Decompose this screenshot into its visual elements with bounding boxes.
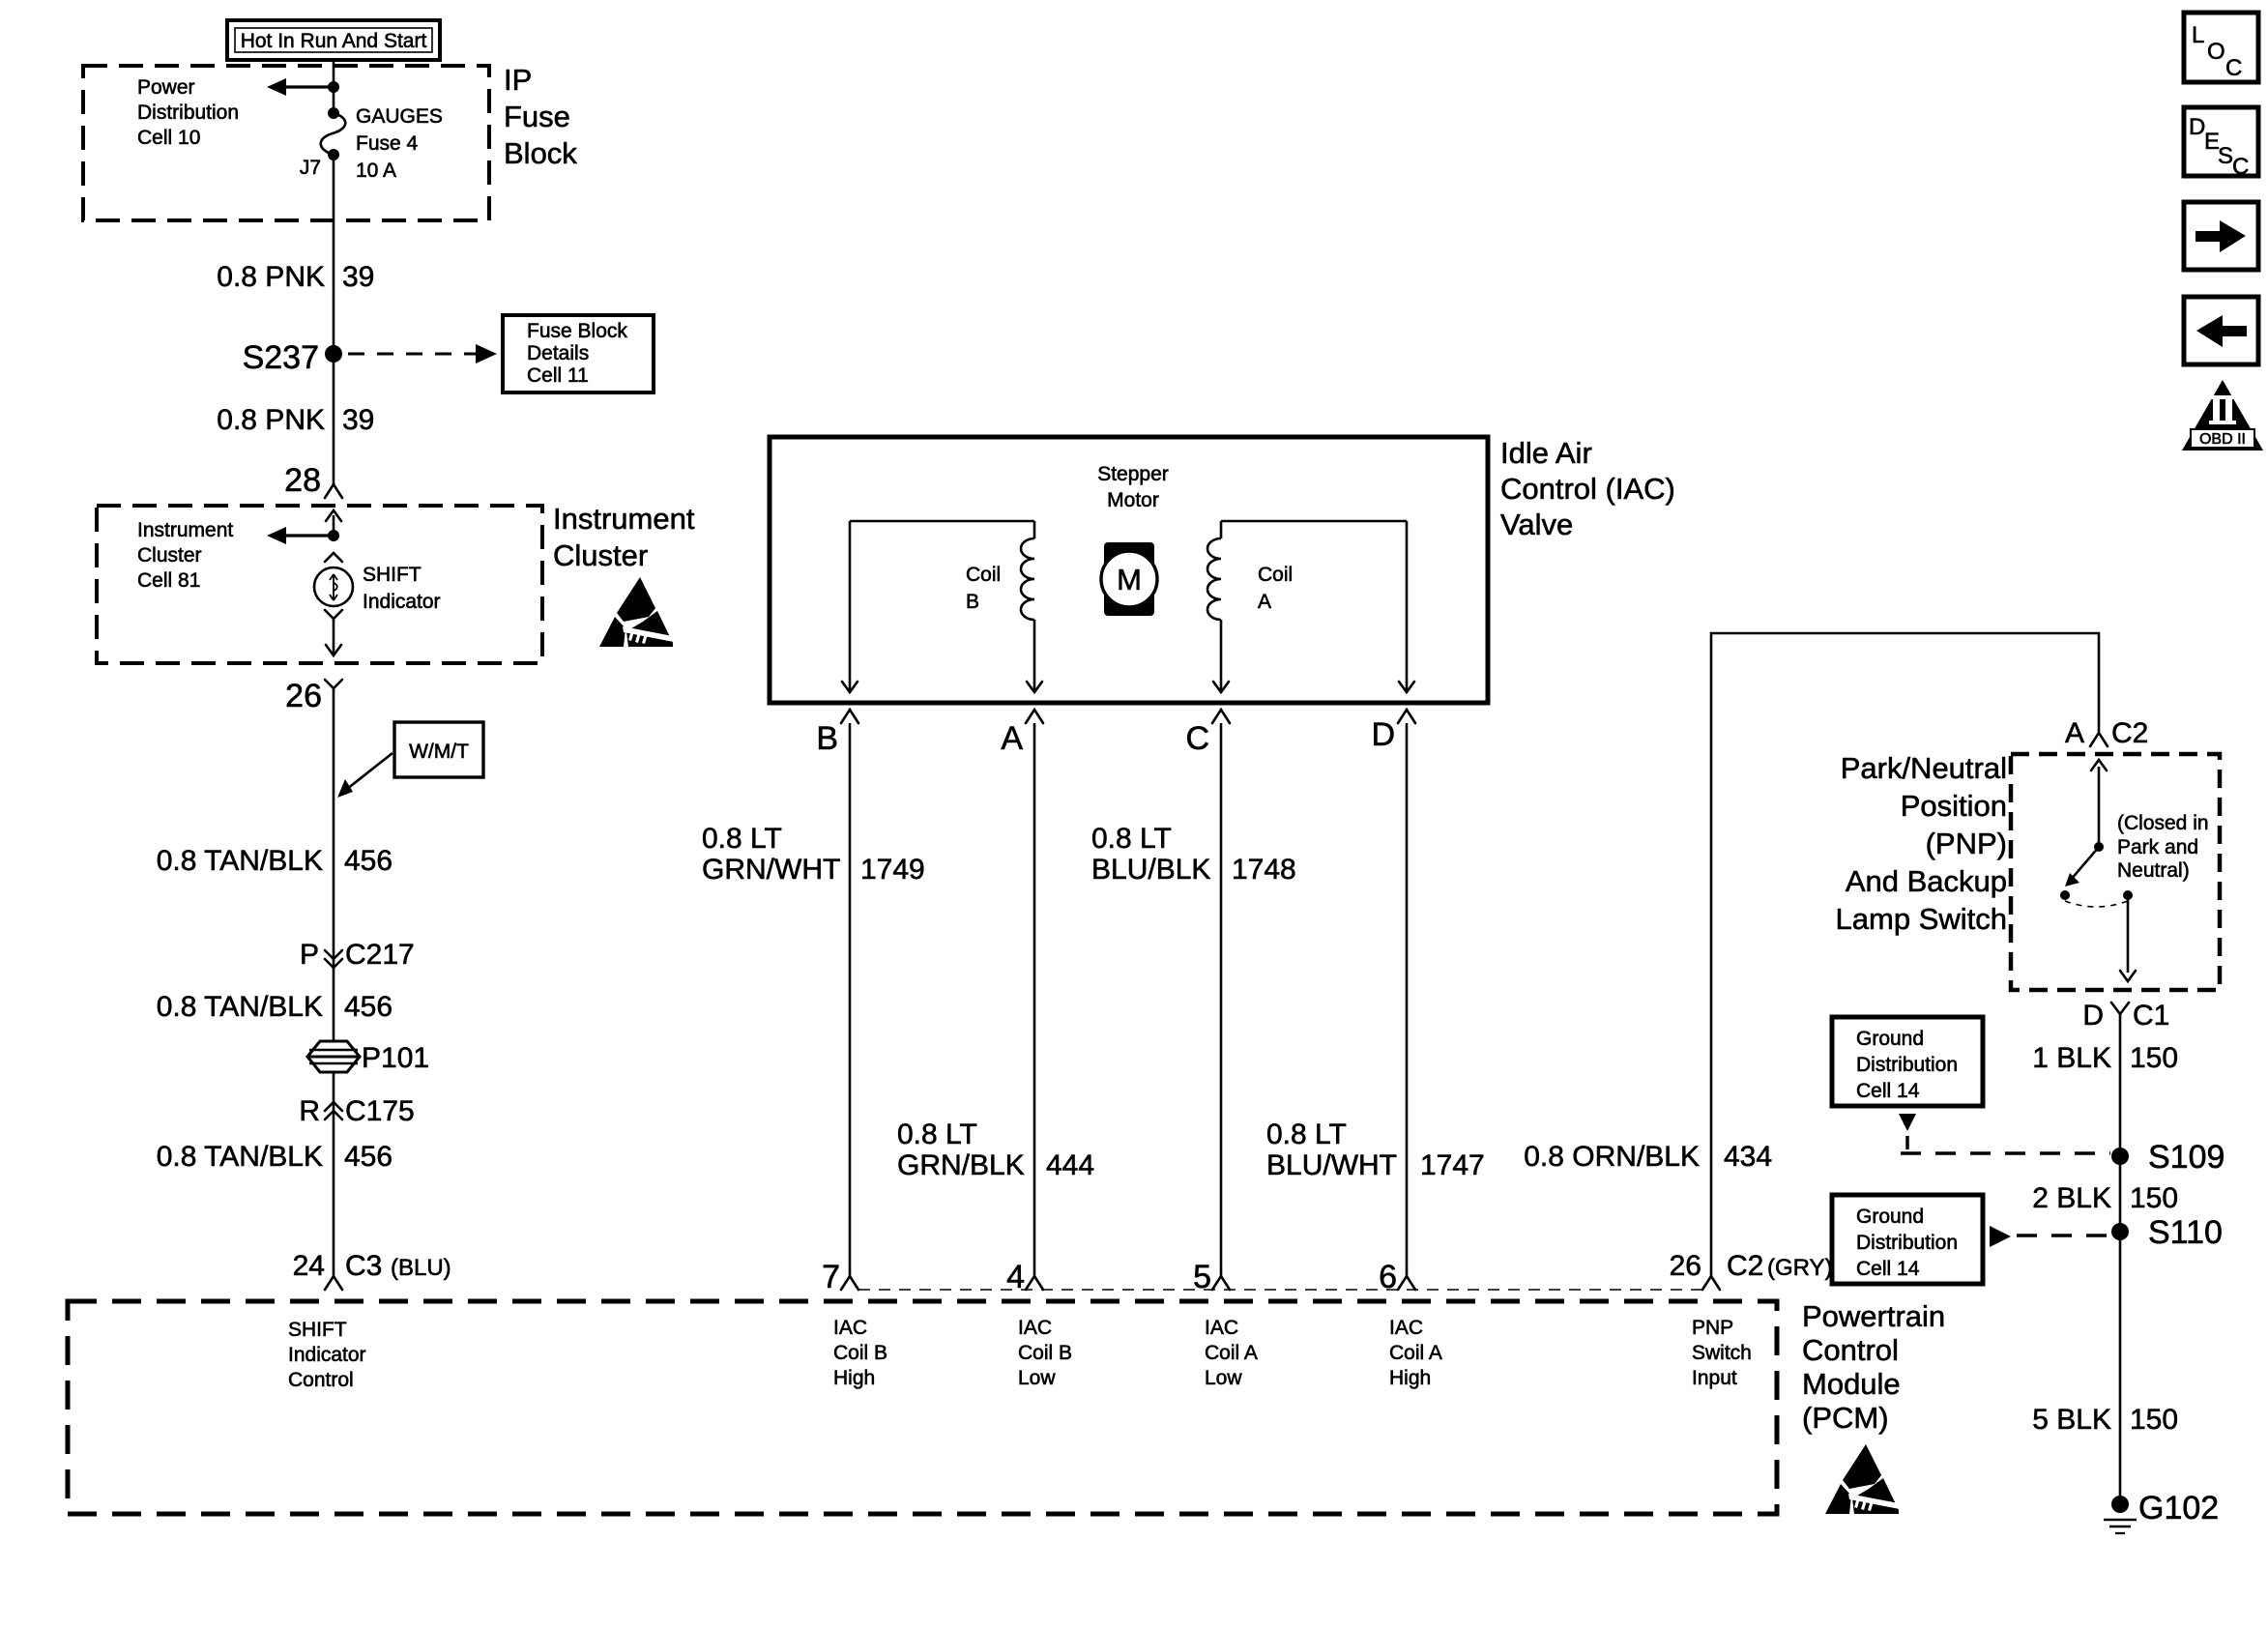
svg-text:Idle Air: Idle Air [1500,436,1592,470]
wire: arrow to Power Distribution Cell 10 [137,76,334,149]
svg-text:26: 26 [285,678,322,714]
node: Ground Distribution Cell 14 reference box (lower) [1832,1195,1983,1284]
node: Hot In Run And Start power label box [227,20,440,60]
svg-text:0.8 ORN/BLK: 0.8 ORN/BLK [1524,1141,1700,1173]
node: next-page arrow icon [2184,202,2258,270]
svg-text:S: S [2218,143,2233,169]
wire: 2 BLK 150 to S110 [2032,1182,2178,1214]
svg-text:Module: Module [1802,1367,1901,1401]
svg-text:A: A [1258,591,1271,613]
svg-text:A: A [2065,717,2084,749]
svg-text:Low: Low [1205,1367,1242,1389]
pin 5 at PCM connector C2 [1193,1259,1230,1295]
wire: dashed reference arrow to Fuse Block Details [348,344,497,363]
svg-text:IP: IP [504,63,532,97]
svg-text:P: P [300,939,319,971]
svg-text:Coil: Coil [966,564,1001,586]
svg-text:C2: C2 [1727,1250,1763,1282]
svg-text:S237: S237 [243,339,319,376]
svg-text:IAC: IAC [1205,1317,1238,1339]
svg-text:P101: P101 [362,1042,429,1074]
node: ESD sensitivity symbol (PCM) [1825,1444,1900,1514]
motor M1: stepper motor [1097,463,1169,616]
IP Fuse Block dashed outline [83,66,489,220]
svg-text:Coil A: Coil A [1205,1342,1258,1364]
pin 4 at PCM connector C2 [1006,1259,1043,1295]
svg-text:IAC: IAC [1018,1317,1052,1339]
wire: dashed reference from Ground Distribution to S110 [1990,1226,2110,1247]
svg-text:28: 28 [284,462,321,499]
svg-text:0.8 LT: 0.8 LT [897,1119,977,1150]
connector C217 pin P [300,939,415,971]
wire: shift indicator output arrow down [325,610,342,655]
svg-text:Instrument: Instrument [137,519,233,541]
svg-text:OBD II: OBD II [2199,431,2246,448]
svg-text:Park and: Park and [2117,836,2198,858]
svg-text:Ground: Ground [1856,1028,1924,1050]
svg-text:C: C [1185,720,1209,757]
node: DESC navigation icon [2184,107,2258,180]
svg-text:(Closed in: (Closed in [2117,812,2209,834]
svg-text:A: A [1001,720,1023,757]
wire: hot feed into IP fuse block [333,60,335,113]
wire: 1 BLK 150 to S109 [2119,1014,2122,1504]
svg-text:Details: Details [527,342,589,364]
svg-text:J7: J7 [300,157,321,179]
wire: 0.8 TAN/BLK 456 C175 to PCM pin 24 [157,1141,393,1173]
svg-text:Indicator: Indicator [363,591,441,613]
node: IAC Coil A High pin label [1389,1317,1442,1389]
node: IAC Coil B High pin label [833,1317,887,1389]
svg-text:And Backup: And Backup [1846,864,2007,898]
svg-text:0.8 TAN/BLK: 0.8 TAN/BLK [157,1141,323,1173]
wire: 0.8 LT BLU/BLK 1748 (IAC C to PCM 5) [1220,723,1223,1276]
svg-text:BLU/BLK: BLU/BLK [1091,854,1210,886]
svg-text:456: 456 [344,845,393,877]
svg-text:Cell 14: Cell 14 [1856,1258,1920,1280]
node S109 splice [2111,1139,2224,1176]
pin A of IAC valve [1001,710,1043,757]
pin 26 connector C2 (GRY) at PCM [1670,1250,1833,1290]
svg-text:0.8 TAN/BLK: 0.8 TAN/BLK [157,845,323,877]
wire: dashed reference from Ground Distribution to S109 [1899,1114,2110,1153]
svg-text:(BLU): (BLU) [391,1255,451,1281]
svg-text:M: M [1117,563,1142,596]
svg-text:Cell 14: Cell 14 [1856,1080,1920,1102]
svg-text:Lamp Switch: Lamp Switch [1836,902,2007,936]
pin 24 connector C3 (BLU) at PCM [293,1250,451,1290]
svg-text:W/M/T: W/M/T [409,741,469,763]
svg-text:Cluster: Cluster [553,538,648,572]
pin 26 connector leaving cluster [285,678,342,714]
node: IP Fuse Block title [504,63,577,170]
node: SHIFT Indicator Control pin label [288,1319,366,1391]
svg-text:Low: Low [1018,1367,1056,1389]
svg-text:D: D [1371,716,1395,753]
wire: 0.8 TAN/BLK 456 cluster to C217 [333,688,335,1276]
svg-text:BLU/WHT: BLU/WHT [1266,1149,1397,1181]
svg-text:Coil B: Coil B [1018,1342,1072,1364]
svg-text:5 BLK: 5 BLK [2032,1404,2111,1436]
svg-text:Coil A: Coil A [1389,1342,1442,1364]
svg-text:R: R [299,1095,320,1127]
svg-text:456: 456 [344,1141,393,1173]
PNP switch dashed outline [2011,754,2220,990]
node: Park/Neutral Position (PNP) And Backup Lamp Switch title [1836,751,2007,936]
svg-text:1749: 1749 [860,854,925,886]
svg-text:Ground: Ground [1856,1206,1924,1228]
wire: connector C2 face dashed line [858,1289,1702,1291]
svg-text:456: 456 [344,991,393,1023]
pin D of IAC valve [1371,710,1415,753]
svg-text:S109: S109 [2148,1139,2224,1176]
svg-text:Fuse Block: Fuse Block [527,320,627,342]
svg-text:Indicator: Indicator [288,1344,366,1366]
svg-text:IAC: IAC [1389,1317,1423,1339]
svg-text:GRN/BLK: GRN/BLK [897,1149,1025,1181]
svg-text:S110: S110 [2148,1214,2223,1251]
svg-text:Power: Power [137,76,195,99]
svg-text:B: B [966,591,979,613]
svg-text:Coil B: Coil B [833,1342,887,1364]
svg-text:1748: 1748 [1232,854,1296,886]
wire: 5 BLK 150 to G102 [2032,1404,2178,1436]
svg-text:Block: Block [504,136,577,170]
wire: cluster feed arrow up [326,510,341,536]
wire: 0.8 LT GRN/BLK 444 (IAC A to PCM 4) [1033,723,1036,1276]
pin B of IAC valve [816,710,858,757]
node S110 splice [2111,1214,2223,1251]
inductor coil B of IAC [842,521,1042,692]
lamp: SHIFT Indicator [314,553,441,613]
node: Powertrain Control Module (PCM) title [1802,1299,1945,1435]
svg-text:PNP: PNP [1692,1317,1733,1339]
grommet P101 [307,1041,429,1074]
svg-text:150: 150 [2130,1404,2178,1436]
svg-text:Stepper: Stepper [1097,463,1169,485]
svg-text:O: O [2207,39,2225,65]
svg-text:Input: Input [1692,1367,1737,1389]
wire: 0.8 ORN/BLK 434 (PNP switch to PCM 26) [1524,633,2099,1276]
svg-text:C: C [2232,154,2249,180]
svg-text:2 BLK: 2 BLK [2032,1182,2111,1214]
svg-text:0.8 TAN/BLK: 0.8 TAN/BLK [157,991,323,1023]
svg-text:Control (IAC): Control (IAC) [1500,472,1675,506]
pin 7 at PCM connector C2 [822,1259,858,1295]
svg-text:1747: 1747 [1420,1149,1485,1181]
switch S1: park/neutral position contacts [2060,760,2136,981]
pin 28 connector at instrument cluster [284,462,342,499]
svg-text:Cell 11: Cell 11 [527,364,589,387]
svg-text:Position: Position [1901,789,2007,823]
svg-text:SHIFT: SHIFT [363,564,422,586]
svg-text:Park/Neutral: Park/Neutral [1841,751,2007,785]
wire: 0.8 PNK 39 from fuse J7 to S237 [333,155,335,354]
node: (Closed in Park and Neutral) note [2117,812,2209,882]
svg-text:39: 39 [342,261,374,293]
svg-text:Neutral): Neutral) [2117,859,2190,882]
svg-text:C217: C217 [345,939,415,971]
node: Fuse Block Details Cell 11 reference box [503,315,654,392]
svg-text:7: 7 [822,1259,840,1295]
ground G102 [2104,1490,2219,1533]
svg-text:IAC: IAC [833,1317,867,1339]
svg-text:(PNP): (PNP) [1926,827,2007,860]
svg-text:Cell 81: Cell 81 [137,569,200,592]
node: Instrument Cluster title [553,502,695,572]
svg-text:150: 150 [2130,1182,2178,1214]
svg-text:High: High [833,1367,875,1389]
connector C175 pin R [299,1095,414,1127]
svg-text:B: B [816,720,838,757]
node: Ground Distribution Cell 14 reference box (upper) [1832,1017,1983,1106]
svg-text:Valve: Valve [1500,508,1573,541]
wire: 0.8 PNK 39 from S237 to cluster pin 28 [333,354,335,484]
svg-text:Cell 10: Cell 10 [137,127,200,149]
pin A connector C2 at PNP switch [2065,717,2148,749]
node: previous-page arrow icon [2184,297,2258,364]
node: OBD II icon [2182,380,2263,451]
svg-text:Switch: Switch [1692,1342,1752,1364]
pin 6 at PCM connector C2 [1379,1259,1415,1295]
node: junction to Power Distribution [328,81,339,93]
svg-text:0.8 PNK: 0.8 PNK [217,261,325,293]
svg-text:0.8 LT: 0.8 LT [702,823,782,855]
IAC valve outline [770,437,1488,703]
svg-text:Coil: Coil [1258,564,1293,586]
node: Idle Air Control (IAC) Valve title [1500,436,1675,541]
inductor coil A of IAC [1207,521,1414,692]
svg-text:10 A: 10 A [356,160,396,182]
svg-text:Fuse 4: Fuse 4 [356,132,419,155]
node: junction to Instrument Cluster Cell 81 [137,519,339,592]
node: W/M/T option flag [337,722,483,798]
svg-text:C3: C3 [345,1250,382,1282]
svg-text:26: 26 [1670,1250,1701,1282]
svg-text:Distribution: Distribution [137,102,239,124]
svg-text:C175: C175 [345,1095,415,1127]
Instrument Cluster dashed outline [97,506,542,663]
svg-text:C2: C2 [2111,717,2148,749]
svg-text:(GRY): (GRY) [1767,1255,1833,1281]
svg-text:Control: Control [1802,1333,1899,1367]
svg-text:434: 434 [1724,1141,1772,1173]
svg-text:Instrument: Instrument [553,502,695,536]
wire: 0.8 LT BLU/WHT 1747 (IAC D to PCM 6) [1406,723,1409,1276]
svg-text:GAUGES: GAUGES [356,105,443,128]
svg-text:Motor: Motor [1107,489,1159,511]
node: PNP Switch Input pin label [1692,1317,1752,1389]
svg-text:L: L [2192,22,2204,48]
svg-text:G102: G102 [2138,1490,2219,1526]
svg-text:Powertrain: Powertrain [1802,1299,1945,1333]
svg-text:Distribution: Distribution [1856,1232,1958,1254]
svg-text:D: D [2189,114,2205,140]
svg-text:0.8 LT: 0.8 LT [1266,1119,1347,1150]
svg-text:C: C [2225,55,2242,81]
svg-text:1 BLK: 1 BLK [2032,1042,2111,1074]
node: IAC Coil A Low pin label [1205,1317,1258,1389]
svg-text:C1: C1 [2133,1000,2169,1032]
svg-text:24: 24 [293,1250,325,1282]
svg-text:GRN/WHT: GRN/WHT [702,854,840,886]
svg-text:0.8 PNK: 0.8 PNK [217,404,325,436]
svg-text:Hot In Run And Start: Hot In Run And Start [241,30,427,52]
PCM dashed outline [68,1301,1777,1514]
fuse F4: GAUGES Fuse 4 10 A [300,105,443,182]
node: IAC Coil B Low pin label [1018,1317,1072,1389]
svg-text:Distribution: Distribution [1856,1054,1958,1076]
svg-text:D: D [2082,1000,2104,1032]
svg-text:(PCM): (PCM) [1802,1401,1889,1435]
svg-text:0.8 LT: 0.8 LT [1091,823,1172,855]
svg-text:High: High [1389,1367,1431,1389]
wire: 0.8 LT GRN/WHT 1749 (IAC B to PCM 7) [849,723,852,1276]
svg-text:444: 444 [1046,1149,1094,1181]
svg-text:150: 150 [2130,1042,2178,1074]
pin C of IAC valve [1185,710,1230,757]
node S237 splice [243,339,342,376]
node: ESD sensitivity symbol (instrument cluster) [599,577,674,647]
svg-text:SHIFT: SHIFT [288,1319,347,1341]
svg-text:39: 39 [342,404,374,436]
svg-text:Fuse: Fuse [504,100,570,133]
node: LOC navigation icon [2184,13,2258,82]
svg-text:Cluster: Cluster [137,544,202,567]
svg-text:Control: Control [288,1369,354,1391]
pin D connector C1 at PNP switch [2082,1000,2169,1032]
wire: 0.8 TAN/BLK 456 C217 to P101 [157,991,393,1023]
